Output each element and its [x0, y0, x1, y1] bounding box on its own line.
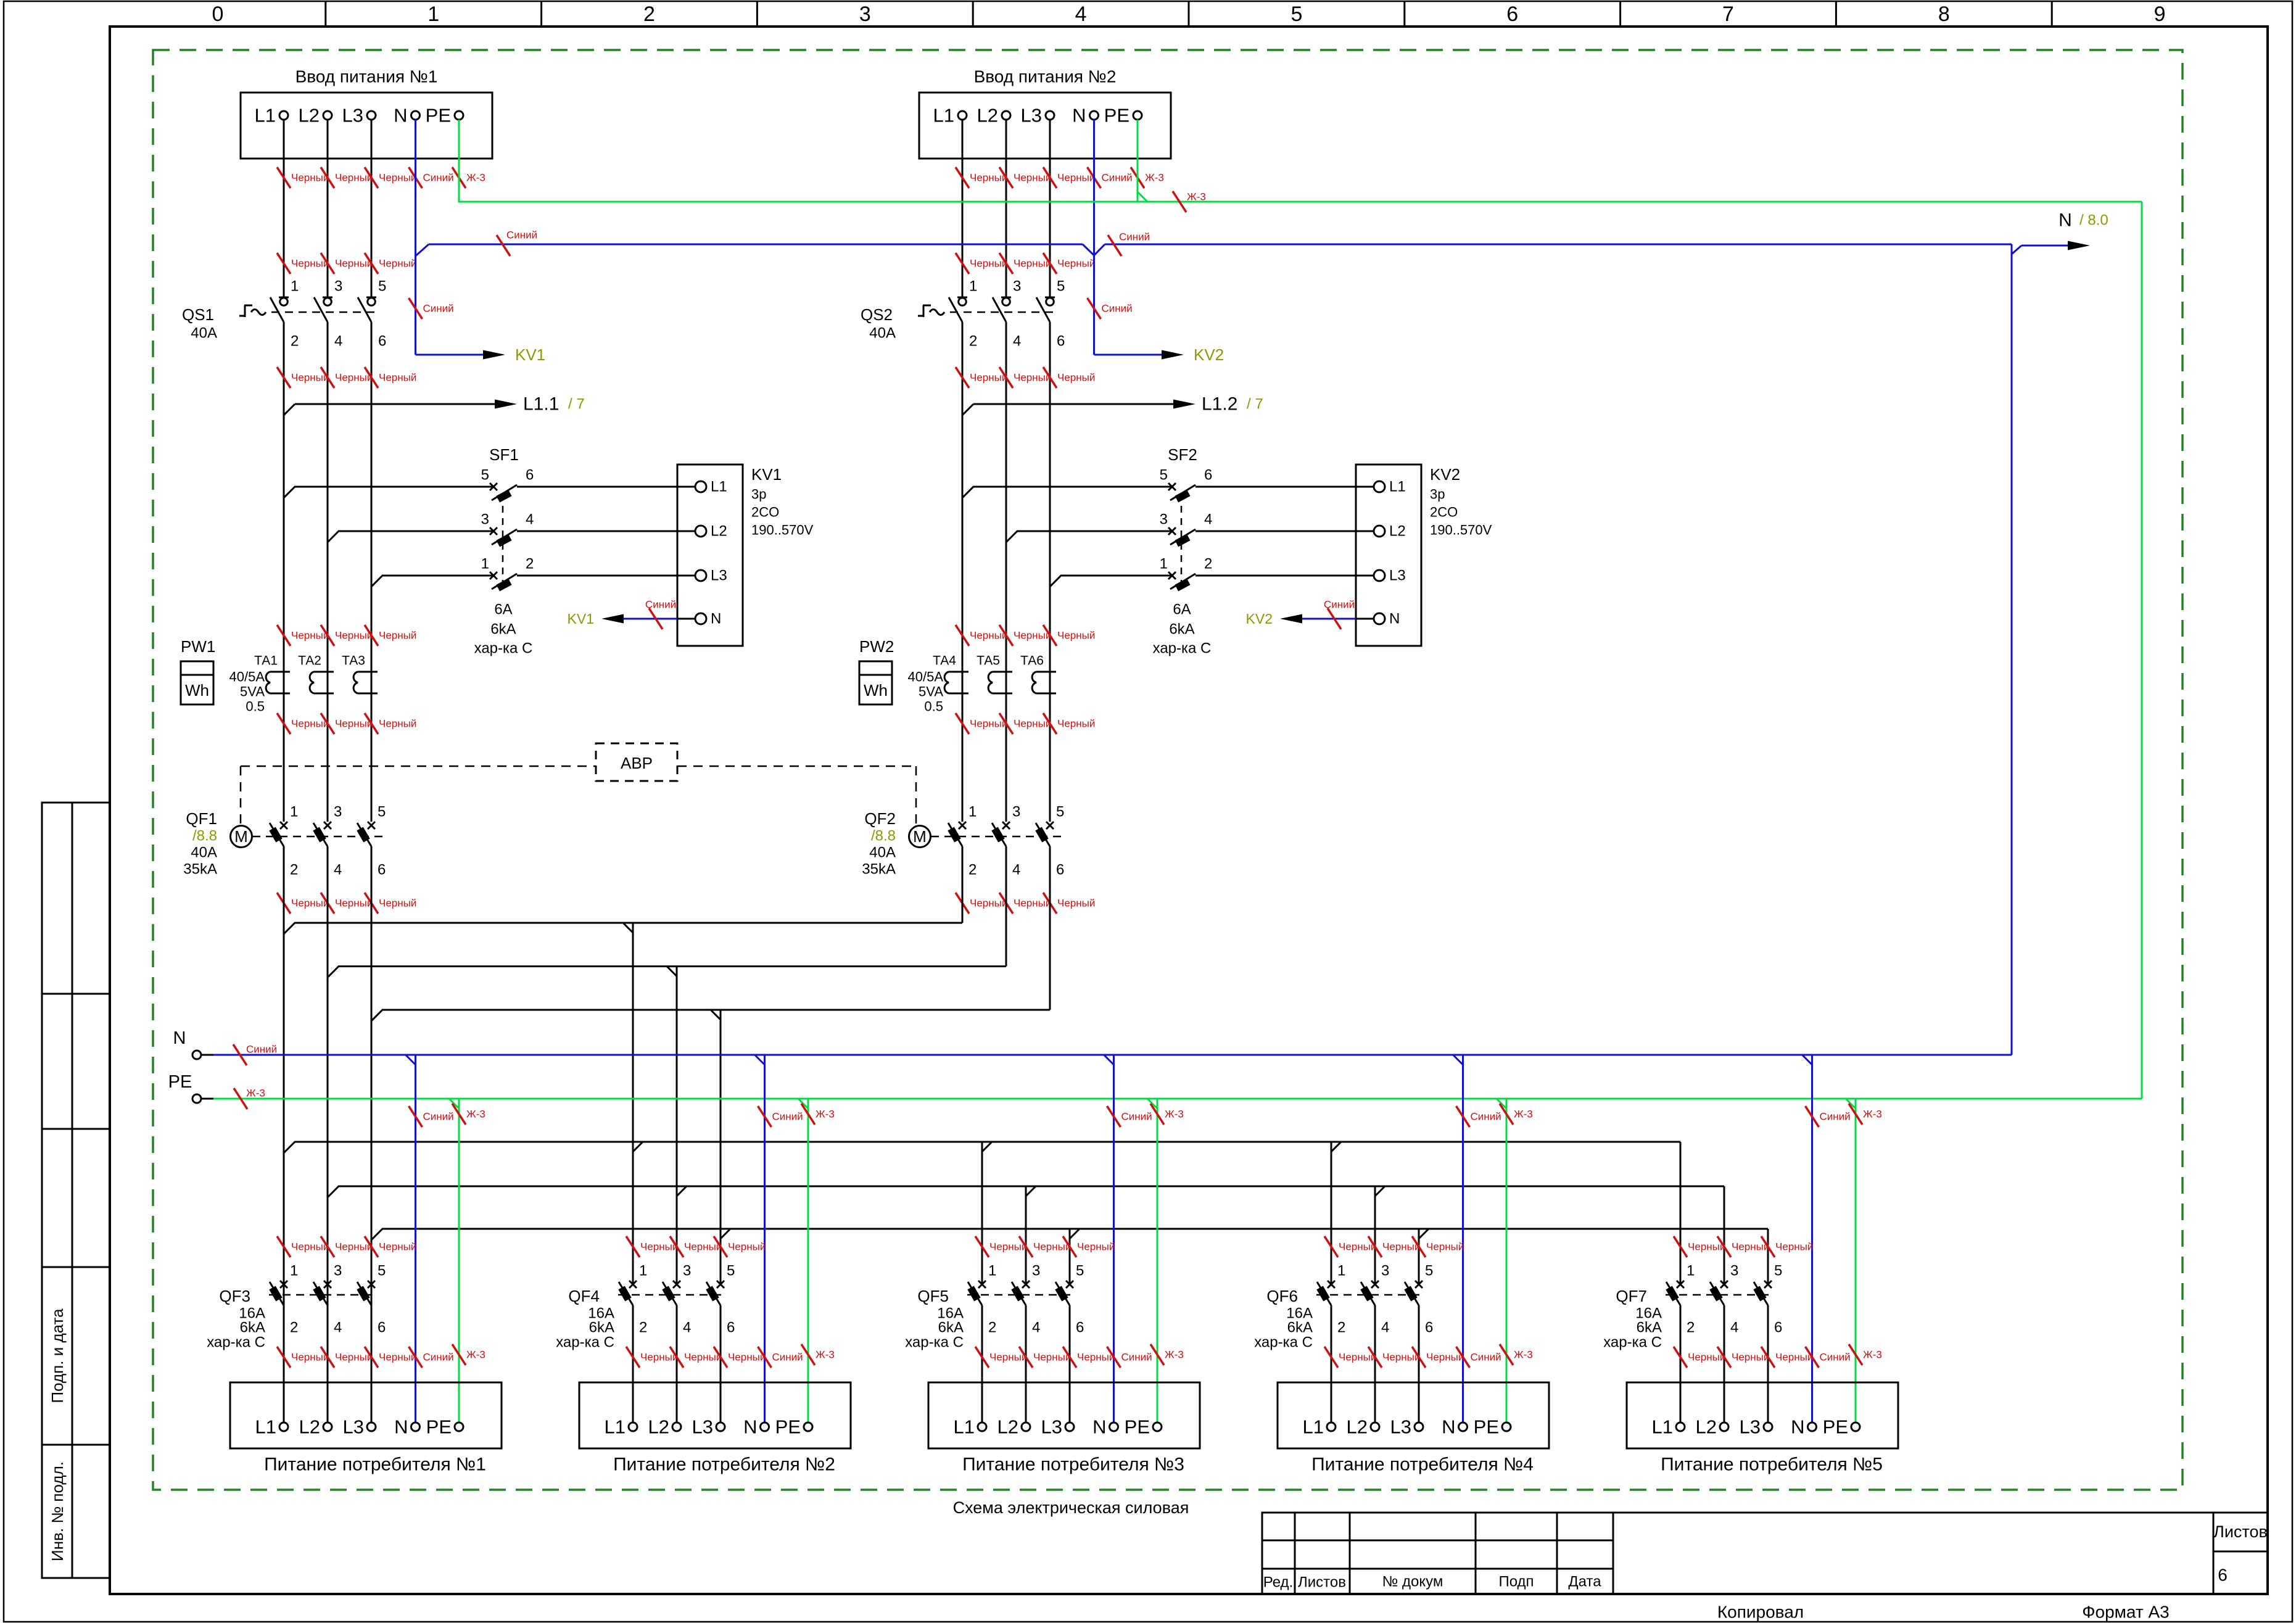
svg-text:L1: L1: [255, 1416, 276, 1438]
svg-text:2: 2: [969, 333, 977, 350]
svg-text:40А: 40А: [191, 325, 217, 342]
svg-text:2CO: 2CO: [751, 505, 779, 520]
svg-text:Черный: Черный: [1688, 1352, 1725, 1363]
svg-text:Черный: Черный: [970, 258, 1007, 270]
svg-text:Черный: Черный: [291, 372, 329, 384]
svg-text:Черный: Черный: [335, 898, 373, 909]
svg-text:Черный: Черный: [379, 372, 416, 384]
svg-text:0.5: 0.5: [924, 699, 943, 714]
svg-text:2: 2: [1337, 1319, 1345, 1336]
svg-text:L2: L2: [648, 1416, 669, 1438]
svg-text:Черный: Черный: [1775, 1352, 1813, 1363]
svg-text:PE: PE: [1823, 1416, 1848, 1438]
svg-text:хар-ка С: хар-ка С: [1603, 1334, 1662, 1351]
svg-text:хар-ка С: хар-ка С: [207, 1334, 265, 1351]
svg-text:Черный: Черный: [970, 630, 1007, 642]
svg-text:L1: L1: [711, 479, 727, 495]
svg-text:6kA: 6kA: [1287, 1319, 1313, 1336]
svg-text:M: M: [913, 827, 927, 846]
svg-text:PW2: PW2: [859, 637, 894, 656]
svg-text:Питание потребителя №2: Питание потребителя №2: [613, 1455, 835, 1475]
svg-text:/ 7: / 7: [568, 396, 585, 413]
svg-text:Черный: Черный: [291, 898, 329, 909]
svg-text:1: 1: [969, 278, 977, 295]
svg-text:L2: L2: [299, 1416, 320, 1438]
svg-text:SF1: SF1: [489, 445, 519, 464]
svg-text:Ж-3: Ж-3: [816, 1349, 835, 1361]
svg-text:Синий: Синий: [1121, 1352, 1152, 1363]
svg-text:L2: L2: [1347, 1416, 1368, 1438]
svg-text:Черный: Черный: [1057, 372, 1095, 384]
svg-text:L1: L1: [1389, 479, 1406, 495]
svg-text:Черный: Черный: [335, 1352, 373, 1363]
svg-text:Черный: Черный: [970, 372, 1007, 384]
svg-text:N: N: [1791, 1416, 1804, 1438]
svg-text:Черный: Черный: [379, 172, 416, 184]
svg-text:PE: PE: [426, 1416, 452, 1438]
svg-text:L3: L3: [1041, 1416, 1062, 1438]
svg-text:1: 1: [1687, 1263, 1695, 1279]
svg-text:5: 5: [481, 467, 489, 484]
svg-text:QS1: QS1: [182, 305, 214, 324]
svg-text:QF4: QF4: [568, 1287, 600, 1305]
svg-text:L1: L1: [1303, 1416, 1324, 1438]
svg-text:1: 1: [639, 1263, 647, 1279]
svg-text:1: 1: [988, 1263, 996, 1279]
svg-text:L1: L1: [933, 105, 954, 126]
svg-text:хар-ка С: хар-ка С: [474, 640, 533, 657]
svg-text:L3: L3: [692, 1416, 713, 1438]
svg-text:Черный: Черный: [1057, 898, 1095, 909]
svg-text:Ж-3: Ж-3: [1165, 1349, 1184, 1361]
svg-text:3: 3: [1381, 1263, 1389, 1279]
svg-text:2: 2: [1687, 1319, 1695, 1336]
svg-text:Ж-3: Ж-3: [1165, 1109, 1184, 1120]
svg-text:3p: 3p: [1430, 487, 1445, 502]
svg-text:4: 4: [334, 333, 342, 350]
svg-text:40/5A: 40/5A: [229, 669, 265, 685]
svg-text:Черный: Черный: [1426, 1241, 1464, 1253]
svg-text:35kA: 35kA: [183, 861, 217, 878]
svg-text:3: 3: [683, 1263, 691, 1279]
svg-text:3: 3: [334, 278, 342, 295]
svg-text:4: 4: [683, 1319, 691, 1336]
svg-text:5: 5: [378, 1263, 386, 1279]
svg-text:QS2: QS2: [861, 305, 893, 324]
svg-text:Ж-3: Ж-3: [246, 1088, 265, 1099]
svg-text:3: 3: [334, 1263, 342, 1279]
svg-text:Питание потребителя №5: Питание потребителя №5: [1661, 1455, 1883, 1475]
svg-text:Черный: Черный: [1014, 172, 1051, 184]
svg-text:Черный: Черный: [335, 172, 373, 184]
svg-text:L3: L3: [711, 568, 727, 584]
svg-text:Черный: Черный: [379, 1352, 416, 1363]
svg-text:KV1: KV1: [515, 345, 545, 364]
svg-text:Черный: Черный: [989, 1352, 1027, 1363]
svg-text:Черный: Черный: [970, 172, 1007, 184]
svg-text:5: 5: [1160, 467, 1168, 484]
svg-text:1: 1: [968, 804, 977, 820]
svg-text:Черный: Черный: [291, 718, 329, 730]
svg-text:Черный: Черный: [1033, 1352, 1071, 1363]
svg-text:Wh: Wh: [185, 681, 209, 700]
svg-text:QF7: QF7: [1616, 1287, 1647, 1305]
svg-text:2: 2: [1204, 556, 1212, 572]
svg-text:6: 6: [1774, 1319, 1782, 1336]
svg-text:Питание потребителя №3: Питание потребителя №3: [962, 1455, 1184, 1475]
svg-text:Черный: Черный: [1688, 1241, 1725, 1253]
svg-text:KV1: KV1: [751, 465, 782, 484]
svg-text:6: 6: [1204, 467, 1212, 484]
svg-text:5: 5: [727, 1263, 735, 1279]
svg-text:Черный: Черный: [1014, 630, 1051, 642]
svg-text:KV2: KV2: [1194, 345, 1224, 364]
svg-text:Черный: Черный: [291, 172, 329, 184]
svg-text:KV2: KV2: [1430, 465, 1460, 484]
svg-text:Ж-3: Ж-3: [1514, 1349, 1533, 1361]
svg-text:Листов: Листов: [1298, 1574, 1346, 1591]
svg-text:35kA: 35kA: [862, 861, 896, 878]
svg-text:4: 4: [526, 511, 534, 528]
svg-text:4: 4: [334, 862, 342, 878]
svg-text:хар-ка С: хар-ка С: [1153, 640, 1212, 657]
svg-text:4: 4: [1204, 511, 1212, 528]
svg-text:PE: PE: [775, 1416, 801, 1438]
svg-text:Синий: Синий: [1121, 1111, 1152, 1123]
svg-text:6А: 6А: [1173, 601, 1191, 618]
svg-text:Схема электрическая силовая: Схема электрическая силовая: [953, 1498, 1189, 1517]
svg-text:L3: L3: [1389, 568, 1406, 584]
svg-text:Синий: Синий: [423, 303, 454, 315]
svg-text:Черный: Черный: [684, 1352, 722, 1363]
svg-text:6: 6: [727, 1319, 735, 1336]
svg-text:5: 5: [1425, 1263, 1433, 1279]
svg-text:5: 5: [1774, 1263, 1782, 1279]
svg-text:Черный: Черный: [1732, 1241, 1769, 1253]
svg-text:1: 1: [290, 1263, 298, 1279]
svg-text:Черный: Черный: [1382, 1352, 1420, 1363]
svg-text:6kA: 6kA: [938, 1319, 964, 1336]
svg-text:9: 9: [2154, 2, 2166, 26]
svg-text:6: 6: [378, 333, 386, 350]
svg-text:N: N: [1092, 1416, 1106, 1438]
svg-text:Синий: Синий: [1119, 231, 1150, 243]
svg-text:Синий: Синий: [1471, 1111, 1501, 1123]
svg-text:1: 1: [291, 278, 299, 295]
svg-text:Синий: Синий: [772, 1352, 803, 1363]
svg-text:6: 6: [526, 467, 534, 484]
svg-text:1: 1: [1160, 556, 1168, 572]
svg-text:2: 2: [643, 2, 655, 26]
svg-text:190..570V: 190..570V: [751, 522, 814, 538]
svg-text:ТА3: ТА3: [342, 654, 365, 668]
svg-text:QF1: QF1: [186, 809, 217, 828]
svg-text:40А: 40А: [869, 845, 896, 861]
svg-text:2: 2: [968, 862, 977, 878]
svg-text:3: 3: [1160, 511, 1168, 528]
svg-text:3: 3: [1032, 1263, 1040, 1279]
svg-text:4: 4: [1012, 862, 1020, 878]
svg-text:Черный: Черный: [1077, 1241, 1115, 1253]
svg-text:M: M: [234, 827, 248, 846]
svg-text:Черный: Черный: [291, 630, 329, 642]
svg-text:190..570V: 190..570V: [1430, 522, 1492, 538]
svg-text:Черный: Черный: [1732, 1352, 1769, 1363]
svg-text:Синий: Синий: [1820, 1111, 1851, 1123]
svg-text:№ докум: № докум: [1382, 1574, 1443, 1590]
svg-text:Подп: Подп: [1498, 1574, 1534, 1590]
svg-text:Синий: Синий: [772, 1111, 803, 1123]
svg-text:Черный: Черный: [1014, 372, 1051, 384]
svg-text:2: 2: [291, 333, 299, 350]
svg-text:SF2: SF2: [1168, 445, 1197, 464]
svg-text:хар-ка С: хар-ка С: [1254, 1334, 1313, 1351]
svg-text:N: N: [394, 1416, 408, 1438]
svg-text:N: N: [394, 105, 407, 126]
svg-text:Черный: Черный: [335, 1241, 373, 1253]
svg-text:Черный: Черный: [728, 1352, 766, 1363]
svg-text:2: 2: [526, 556, 534, 572]
svg-text:Ж-3: Ж-3: [1514, 1109, 1533, 1120]
svg-text:Ж-3: Ж-3: [1187, 191, 1206, 203]
svg-text:QF5: QF5: [917, 1287, 949, 1305]
svg-text:6kA: 6kA: [490, 621, 516, 638]
svg-text:Wh: Wh: [864, 681, 888, 700]
svg-text:Синий: Синий: [645, 599, 676, 611]
svg-text:Черный: Черный: [291, 258, 329, 270]
svg-text:Черный: Черный: [379, 1241, 416, 1253]
svg-text:Черный: Черный: [1339, 1241, 1376, 1253]
svg-text:L3: L3: [1021, 105, 1042, 126]
svg-text:Черный: Черный: [1014, 258, 1051, 270]
svg-text:хар-ка С: хар-ка С: [905, 1334, 964, 1351]
svg-text:N: N: [1442, 1416, 1455, 1438]
svg-text:3: 3: [334, 804, 342, 820]
svg-text:L3: L3: [343, 1416, 364, 1438]
svg-text:АВР: АВР: [621, 754, 653, 772]
svg-text:L2: L2: [1389, 523, 1406, 540]
svg-text:Черный: Черный: [1426, 1352, 1464, 1363]
svg-text:2: 2: [988, 1319, 996, 1336]
svg-text:6: 6: [2218, 1566, 2228, 1585]
svg-text:/ 7: / 7: [1247, 396, 1263, 413]
svg-text:/8.8: /8.8: [871, 828, 896, 845]
svg-text:6kA: 6kA: [1637, 1319, 1662, 1336]
svg-text:6: 6: [1425, 1319, 1433, 1336]
svg-text:N: N: [711, 611, 721, 627]
svg-text:Синий: Синий: [423, 172, 454, 184]
svg-text:2: 2: [639, 1319, 647, 1336]
svg-text:40А: 40А: [191, 845, 217, 861]
svg-text:4: 4: [1381, 1319, 1389, 1336]
svg-text:/ 8.0: / 8.0: [2079, 212, 2108, 229]
svg-text:1: 1: [427, 2, 439, 26]
svg-text:0: 0: [212, 2, 223, 26]
svg-text:L2: L2: [299, 105, 320, 126]
svg-text:Черный: Черный: [1057, 258, 1095, 270]
svg-text:PE: PE: [1104, 105, 1129, 126]
svg-text:Черный: Черный: [1014, 718, 1051, 730]
svg-text:Дата: Дата: [1568, 1574, 1601, 1590]
svg-text:N: N: [743, 1416, 757, 1438]
svg-text:Ж-3: Ж-3: [466, 1109, 485, 1120]
svg-text:2CO: 2CO: [1430, 505, 1458, 520]
svg-text:Черный: Черный: [1382, 1241, 1420, 1253]
svg-text:Черный: Черный: [379, 898, 416, 909]
svg-text:3p: 3p: [751, 487, 766, 502]
svg-text:L1: L1: [255, 105, 276, 126]
svg-text:N: N: [1072, 105, 1086, 126]
svg-text:Черный: Черный: [1057, 630, 1095, 642]
svg-text:L2: L2: [1696, 1416, 1717, 1438]
svg-text:L1: L1: [605, 1416, 626, 1438]
svg-text:Черный: Черный: [1014, 898, 1051, 909]
svg-text:Черный: Черный: [291, 1241, 329, 1253]
svg-text:6: 6: [1057, 333, 1065, 350]
svg-text:L3: L3: [1740, 1416, 1761, 1438]
svg-text:N: N: [173, 1028, 186, 1048]
svg-text:Черный: Черный: [335, 718, 373, 730]
svg-text:Синий: Синий: [1102, 303, 1133, 315]
svg-text:Ввод питания №1: Ввод питания №1: [295, 67, 438, 86]
svg-text:4: 4: [1075, 2, 1087, 26]
svg-text:5VA: 5VA: [240, 684, 265, 700]
svg-text:6kA: 6kA: [1169, 621, 1194, 638]
svg-text:Черный: Черный: [335, 372, 373, 384]
svg-text:Черный: Черный: [1057, 172, 1095, 184]
svg-text:Синий: Синий: [1471, 1352, 1501, 1363]
svg-text:5: 5: [1057, 278, 1065, 295]
svg-text:ТА1: ТА1: [254, 654, 278, 668]
svg-text:Питание потребителя №4: Питание потребителя №4: [1311, 1455, 1534, 1475]
svg-text:PE: PE: [1125, 1416, 1150, 1438]
svg-text:3: 3: [481, 511, 489, 528]
svg-text:N: N: [2059, 210, 2072, 231]
svg-text:2: 2: [290, 862, 298, 878]
svg-text:Ж-3: Ж-3: [816, 1109, 835, 1120]
svg-text:Черный: Черный: [1033, 1241, 1071, 1253]
svg-text:PE: PE: [168, 1072, 192, 1092]
svg-text:Черный: Черный: [291, 1352, 329, 1363]
svg-text:Подп. и дата: Подп. и дата: [48, 1308, 67, 1403]
svg-text:6: 6: [1056, 862, 1064, 878]
svg-text:Ж-3: Ж-3: [1145, 172, 1164, 184]
svg-text:Черный: Черный: [970, 898, 1007, 909]
svg-text:40/5A: 40/5A: [908, 669, 944, 685]
svg-text:ТА4: ТА4: [933, 654, 956, 668]
svg-text:Ж-3: Ж-3: [466, 172, 485, 184]
svg-text:40А: 40А: [869, 325, 896, 342]
svg-text:PW1: PW1: [181, 637, 215, 656]
svg-text:L3: L3: [342, 105, 363, 126]
svg-text:4: 4: [1730, 1319, 1738, 1336]
svg-text:Черный: Черный: [379, 630, 416, 642]
svg-text:L1: L1: [1652, 1416, 1673, 1438]
svg-text:1: 1: [1337, 1263, 1345, 1279]
svg-text:Черный: Черный: [1077, 1352, 1115, 1363]
svg-text:5: 5: [1056, 804, 1064, 820]
svg-text:Черный: Черный: [970, 718, 1007, 730]
svg-text:Черный: Черный: [640, 1352, 678, 1363]
svg-text:0.5: 0.5: [246, 699, 265, 714]
svg-text:PE: PE: [1474, 1416, 1499, 1438]
svg-text:N: N: [1389, 611, 1400, 627]
svg-text:Черный: Черный: [728, 1241, 766, 1253]
svg-text:5: 5: [1290, 2, 1302, 26]
svg-text:ТА2: ТА2: [298, 654, 321, 668]
svg-text:ТА6: ТА6: [1020, 654, 1044, 668]
svg-text:Ред.: Ред.: [1263, 1574, 1293, 1591]
svg-text:L1.1: L1.1: [523, 394, 559, 415]
svg-text:Ж-3: Ж-3: [466, 1349, 485, 1361]
svg-text:Черный: Черный: [379, 258, 416, 270]
svg-text:Ж-3: Ж-3: [1863, 1349, 1882, 1361]
svg-text:5VA: 5VA: [919, 684, 943, 700]
svg-text:/8.8: /8.8: [192, 828, 217, 845]
svg-text:Синий: Синий: [1102, 172, 1133, 184]
svg-text:PE: PE: [426, 105, 451, 126]
svg-text:6: 6: [378, 862, 386, 878]
svg-text:KV2: KV2: [1246, 611, 1273, 627]
svg-text:3: 3: [1013, 278, 1021, 295]
svg-text:1: 1: [481, 556, 489, 572]
svg-text:QF6: QF6: [1266, 1287, 1298, 1305]
svg-text:QF2: QF2: [864, 809, 896, 828]
svg-text:Синий: Синий: [423, 1352, 454, 1363]
svg-text:Черный: Черный: [1057, 718, 1095, 730]
svg-text:Синий: Синий: [1820, 1352, 1851, 1363]
svg-text:хар-ка С: хар-ка С: [556, 1334, 614, 1351]
svg-text:3: 3: [1012, 804, 1020, 820]
svg-text:Черный: Черный: [684, 1241, 722, 1253]
svg-text:5: 5: [378, 804, 386, 820]
svg-text:Синий: Синий: [423, 1111, 454, 1123]
svg-text:6: 6: [378, 1319, 386, 1336]
svg-text:6А: 6А: [494, 601, 512, 618]
svg-text:Формат А3: Формат А3: [2082, 1603, 2170, 1622]
svg-text:3: 3: [1730, 1263, 1738, 1279]
svg-text:L2: L2: [711, 523, 727, 540]
svg-text:L3: L3: [1390, 1416, 1411, 1438]
svg-text:Черный: Черный: [640, 1241, 678, 1253]
svg-text:L2: L2: [997, 1416, 1018, 1438]
svg-text:6: 6: [1076, 1319, 1084, 1336]
svg-text:L1: L1: [954, 1416, 975, 1438]
svg-text:Синий: Синий: [506, 229, 537, 241]
svg-text:5: 5: [1076, 1263, 1084, 1279]
svg-text:ТА5: ТА5: [977, 654, 1000, 668]
svg-text:L1.2: L1.2: [1202, 394, 1237, 415]
svg-text:Копировал: Копировал: [1717, 1603, 1804, 1622]
svg-text:4: 4: [334, 1319, 342, 1336]
svg-text:Инв. № подл.: Инв. № подл.: [48, 1461, 67, 1561]
svg-text:Черный: Черный: [335, 630, 373, 642]
svg-text:7: 7: [1722, 2, 1734, 26]
svg-text:1: 1: [290, 804, 298, 820]
svg-text:Синий: Синий: [246, 1044, 277, 1055]
svg-text:Черный: Черный: [1339, 1352, 1376, 1363]
svg-text:Синий: Синий: [1324, 599, 1355, 611]
svg-text:L2: L2: [977, 105, 998, 126]
svg-text:KV1: KV1: [568, 611, 594, 627]
svg-text:4: 4: [1032, 1319, 1040, 1336]
svg-text:6kA: 6kA: [589, 1319, 614, 1336]
svg-text:5: 5: [378, 278, 386, 295]
svg-text:QF3: QF3: [219, 1287, 250, 1305]
svg-text:Ввод питания №2: Ввод питания №2: [974, 67, 1117, 86]
svg-text:Листов: Листов: [2213, 1522, 2268, 1541]
svg-text:Черный: Черный: [335, 258, 373, 270]
